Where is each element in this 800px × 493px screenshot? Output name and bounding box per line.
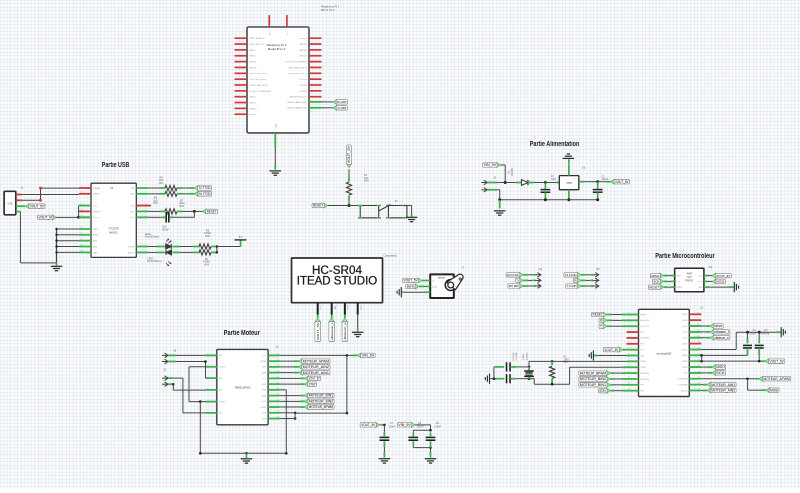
svg-text:PWMB: PWMB: [260, 407, 267, 409]
svg-text:14: 14: [277, 411, 279, 413]
svg-text:15: 15: [277, 405, 279, 407]
svg-text:ID_SD I2C ID EEPROM: ID_SD I2C ID EEPROM: [249, 91, 271, 93]
svg-text:23: 23: [698, 342, 700, 344]
svg-text:VOUT_5V: VOUT_5V: [615, 180, 629, 184]
svg-text:-: -: [433, 291, 434, 294]
svg-text:ADC4: ADC4: [682, 319, 687, 322]
svg-text:PROG: PROG: [685, 278, 693, 282]
svg-text:18: 18: [277, 388, 279, 390]
svg-text:Red (633nm): Red (633nm): [148, 260, 162, 263]
svg-text:TB6612FNG: TB6612FNG: [234, 385, 251, 389]
svg-text:17: 17: [698, 377, 700, 379]
svg-text:pcint2: pcint2: [682, 331, 687, 334]
svg-text:100nF: 100nF: [750, 332, 757, 335]
svg-text:VOUT_5V: VOUT_5V: [604, 348, 619, 352]
svg-text:ADC3: ADC3: [682, 342, 687, 345]
svg-text:OC1B/PWM: OC1B/PWM: [677, 379, 688, 381]
svg-text:AIN1: AIN1: [262, 371, 266, 374]
svg-text:MOTEUR_AIN2: MOTEUR_AIN2: [303, 365, 329, 369]
svg-text:C5 22pF: C5 22pF: [516, 351, 518, 360]
svg-text:SPI: SPI: [687, 275, 692, 279]
svg-text:AVR: AVR: [687, 271, 692, 275]
svg-text:AO1: AO1: [219, 354, 223, 357]
svg-text:TXLED: TXLED: [128, 246, 135, 248]
svg-text:Model B v1.2: Model B v1.2: [268, 47, 286, 51]
svg-text:16 MHz: 16 MHz: [526, 352, 528, 360]
svg-text:MISO: MISO: [676, 275, 681, 277]
svg-text:MOTEUR_AIN1: MOTEUR_AIN1: [303, 371, 329, 375]
svg-text:GND: GND: [275, 123, 277, 128]
svg-text:ultrason_t: ultrason_t: [714, 330, 729, 334]
svg-text:VCC: VCC: [262, 378, 267, 380]
svg-text:20: 20: [81, 227, 83, 229]
svg-text:GPIO5: GPIO5: [249, 97, 256, 99]
svg-text:28: 28: [698, 312, 700, 314]
svg-text:GND: GND: [93, 246, 98, 248]
svg-text:Partie Microcontroleur: Partie Microcontroleur: [655, 253, 715, 260]
svg-text:GPIO24: GPIO24: [300, 85, 308, 87]
svg-text:CTS: CTS: [131, 206, 136, 208]
svg-text:STBY: STBY: [599, 389, 606, 393]
svg-text:MISO: MISO: [716, 365, 725, 369]
svg-text:1: 1: [145, 186, 146, 188]
svg-text:GPIO8 SPI0_CE0_N: GPIO8 SPI0_CE0_N: [288, 73, 307, 75]
svg-text:Partie USB: Partie USB: [102, 162, 130, 169]
svg-text:BASIC: BASIC: [109, 230, 117, 234]
svg-text:100nF: 100nF: [417, 425, 424, 428]
svg-text:GPIO7 SPI0_CE1_N: GPIO7 SPI0_CE1_N: [288, 67, 307, 69]
svg-text:MOTEUR_AIN1: MOTEUR_AIN1: [711, 383, 735, 387]
svg-text:TXD: TXD: [131, 188, 136, 190]
svg-text:RXLED: RXLED: [128, 252, 135, 254]
svg-text:VM1: VM1: [262, 355, 266, 357]
svg-text:15: 15: [698, 388, 700, 390]
svg-text:MOTEUR_BIN2: MOTEUR_BIN2: [580, 377, 606, 381]
svg-text:MOSI: MOSI: [698, 281, 703, 283]
svg-text:VOUT_5V: VOUT_5V: [30, 204, 45, 208]
svg-text:11: 11: [628, 371, 630, 373]
svg-text:AREF: AREF: [682, 360, 688, 363]
svg-text:RESET: RESET: [676, 287, 683, 289]
svg-text:RX FT232: RX FT232: [507, 273, 519, 277]
svg-text:SCK: SCK: [716, 371, 725, 375]
svg-text:MOTEUR_BIN2: MOTEUR_BIN2: [309, 399, 333, 403]
svg-text:SCK: SCK: [653, 280, 660, 284]
svg-text:5: 5: [208, 400, 209, 402]
svg-text:VCC: VCC: [93, 206, 98, 208]
svg-text:OC1A/PWM: OC1A/PWM: [677, 383, 688, 386]
svg-text:GPIO13: GPIO13: [249, 108, 257, 110]
svg-text:AO2: AO2: [219, 377, 223, 380]
svg-text:6: 6: [145, 244, 146, 246]
svg-text:GPIO20: GPIO20: [300, 44, 308, 46]
svg-text:23: 23: [277, 359, 279, 361]
svg-text:GPIO27: GPIO27: [249, 62, 257, 64]
svg-text:RXD: RXD: [130, 194, 135, 196]
svg-text:GPIO15 UART0_RXD: GPIO15 UART0_RXD: [287, 101, 307, 104]
svg-text:ADC5: ADC5: [682, 313, 687, 316]
svg-text:2: 2: [145, 192, 146, 194]
svg-text:20: 20: [277, 376, 279, 378]
svg-text:13: 13: [628, 383, 630, 385]
svg-text:VIN_9V: VIN_9V: [398, 423, 411, 427]
svg-text:servo: servo: [407, 285, 415, 289]
svg-text:XTAL2: XTAL2: [640, 366, 646, 369]
svg-text:VIN_9V: VIN_9V: [484, 163, 497, 167]
svg-text:GPIO19: GPIO19: [249, 114, 257, 116]
svg-text:VCC: VCC: [319, 305, 321, 310]
svg-text:27: 27: [698, 318, 700, 320]
svg-text:VOUT_5V: VOUT_5V: [716, 274, 731, 278]
svg-text:GPIO16: GPIO16: [300, 50, 308, 52]
svg-text:PB0: PB0: [640, 390, 644, 392]
svg-text:VM2: VM2: [262, 413, 266, 415]
svg-text:PGND1: PGND1: [219, 367, 226, 369]
svg-text:7805: 7805: [566, 181, 572, 185]
svg-text:RX: RX: [574, 279, 577, 283]
svg-text:GPIO18 PCM_CLK: GPIO18 PCM_CLK: [290, 97, 308, 99]
svg-text:18: 18: [81, 209, 83, 211]
svg-text:2: 2: [629, 318, 630, 320]
svg-text:Partie Moteur: Partie Moteur: [224, 330, 260, 337]
svg-text:GPIO21: GPIO21: [300, 38, 308, 40]
svg-text:6: 6: [629, 342, 630, 344]
svg-text:STBY: STBY: [261, 384, 267, 386]
svg-text:SS/OC2: SS/OC2: [681, 390, 688, 392]
svg-text:VM3: VM3: [262, 418, 266, 420]
svg-text:100nF: 100nF: [602, 178, 609, 181]
svg-text:pcint17/TX: pcint17/TX: [640, 325, 650, 328]
svg-text:MOTEUR_BIN1: MOTEUR_BIN1: [309, 394, 333, 398]
svg-text:24: 24: [81, 250, 83, 252]
svg-text:22: 22: [698, 347, 700, 349]
svg-text:USBDP: USBDP: [93, 194, 101, 196]
svg-text:MOTEUR_BIN1: MOTEUR_BIN1: [580, 383, 606, 387]
svg-text:4: 4: [629, 330, 630, 332]
svg-text:21: 21: [81, 233, 83, 235]
svg-text:2: 2: [208, 365, 209, 367]
svg-text:4: 4: [208, 388, 209, 390]
svg-text:PD7: PD7: [640, 385, 644, 387]
svg-text:PD4: PD4: [640, 344, 644, 346]
svg-text:5: 5: [145, 215, 146, 217]
svg-text:PGND2: PGND2: [219, 401, 226, 403]
svg-text:GPIO2 SDA1 I2C: GPIO2 SDA1 I2C: [249, 37, 265, 40]
svg-text:GND: GND: [93, 252, 98, 254]
svg-text:atmega328: atmega328: [657, 352, 672, 356]
svg-text:GPIO23: GPIO23: [300, 91, 308, 93]
svg-text:GPIO11 SPI0_SCLK: GPIO11 SPI0_SCLK: [249, 85, 268, 87]
svg-text:VOUT_5V: VOUT_5V: [361, 423, 376, 427]
svg-text:MOTEUR_AIN2: MOTEUR_AIN2: [711, 389, 735, 393]
svg-text:PD3/PWM: PD3/PWM: [640, 338, 649, 340]
svg-text:RESET: RESET: [313, 204, 323, 208]
svg-text:MOSI: MOSI: [716, 280, 724, 284]
svg-text:8: 8: [629, 353, 630, 355]
svg-text:10μF: 10μF: [551, 178, 557, 181]
svg-text:XTAL1: XTAL1: [522, 353, 525, 360]
svg-text:RPI-3 V1.2: RPI-3 V1.2: [321, 8, 335, 12]
svg-text:J11: J11: [538, 268, 542, 271]
svg-text:servo: servo: [714, 324, 722, 328]
svg-text:VOUT_5V: VOUT_5V: [316, 323, 320, 341]
svg-text:GND: GND: [698, 287, 703, 289]
svg-text:GPIO6: GPIO6: [249, 102, 256, 104]
svg-text:MOSI: MOSI: [770, 388, 778, 392]
svg-text:21: 21: [277, 371, 279, 373]
svg-text:PD6/PWM: PD6/PWM: [640, 379, 649, 381]
svg-text:24: 24: [277, 353, 279, 355]
svg-text:Rx RPI: Rx RPI: [337, 100, 346, 104]
svg-text:U4: U4: [110, 186, 114, 190]
svg-text:J10: J10: [596, 268, 601, 271]
svg-text:AGND: AGND: [682, 354, 688, 357]
svg-text:VCC: VCC: [640, 349, 645, 351]
svg-text:BO1: BO1: [219, 413, 223, 415]
svg-text:ultrason_e: ultrason_e: [714, 336, 729, 340]
svg-text:TX FT232: TX FT232: [199, 186, 211, 190]
svg-text:ID_SC I2C ID EEPROM: ID_SC I2C ID EEPROM: [285, 62, 307, 64]
svg-text:TX: TX: [516, 279, 519, 283]
svg-text:pcint3: pcint3: [682, 337, 687, 340]
svg-text:TX RPI: TX RPI: [567, 284, 577, 288]
svg-text:21: 21: [698, 353, 700, 355]
svg-text:23: 23: [81, 244, 83, 246]
svg-text:22: 22: [277, 365, 279, 367]
svg-text:14: 14: [628, 389, 630, 391]
svg-text:5: 5: [629, 336, 630, 338]
svg-text:GPIO3 SCL1 I2C: GPIO3 SCL1 I2C: [249, 44, 265, 46]
svg-text:pcint16/RX: pcint16/RX: [640, 319, 650, 322]
svg-text:GPIO9 SPI0_MISO: GPIO9 SPI0_MISO: [249, 79, 267, 81]
svg-text:6: 6: [208, 411, 209, 413]
svg-text:15: 15: [81, 186, 83, 188]
svg-text:10: 10: [628, 365, 630, 367]
svg-text:MOTEUR_BPWM: MOTEUR_BPWM: [309, 405, 333, 409]
svg-text:RX FT232: RX FT232: [199, 192, 211, 196]
svg-text:PWMA: PWMA: [260, 360, 267, 363]
svg-text:16: 16: [698, 383, 700, 385]
svg-text:GND: GND: [262, 390, 267, 392]
svg-text:GPIO12: GPIO12: [300, 56, 308, 58]
svg-text:DTR: DTR: [130, 217, 135, 219]
svg-text:Red (633nm): Red (633nm): [145, 236, 159, 239]
svg-text:VIN_9V: VIN_9V: [362, 354, 375, 358]
svg-text:MOTEUR_APWM: MOTEUR_APWM: [303, 359, 329, 363]
svg-text:BIN2: BIN2: [262, 401, 266, 403]
svg-text:17: 17: [277, 393, 279, 395]
svg-text:USB: USB: [8, 202, 13, 205]
svg-text:VOUT_M: VOUT_M: [39, 216, 53, 220]
svg-text:19: 19: [277, 382, 279, 384]
svg-text:servo: servo: [438, 276, 446, 280]
svg-text:100nF: 100nF: [388, 425, 395, 428]
svg-text:RESET: RESET: [207, 210, 217, 214]
svg-text:RESET: RESET: [649, 285, 659, 289]
svg-text:20: 20: [698, 359, 700, 361]
svg-text:9: 9: [629, 359, 630, 361]
svg-text:7: 7: [629, 348, 630, 350]
svg-text:STBY: STBY: [309, 382, 316, 386]
svg-text:C4 22pF: C4 22pF: [513, 351, 515, 360]
svg-text:4: 4: [145, 209, 146, 211]
svg-text:Echo: Echo: [347, 305, 349, 311]
svg-text:Partie Alimentation: Partie Alimentation: [530, 141, 580, 148]
svg-text:GND: GND: [93, 241, 98, 243]
svg-text:PD2: PD2: [640, 332, 644, 334]
svg-text:GND: GND: [640, 355, 645, 357]
svg-text:VCC: VCC: [698, 275, 703, 277]
svg-text:16: 16: [277, 399, 279, 401]
svg-text:TEST: TEST: [93, 229, 99, 231]
svg-text:13: 13: [277, 416, 279, 418]
svg-text:RX: RX: [600, 319, 603, 323]
svg-text:AGND: AGND: [93, 234, 99, 237]
svg-text:3: 3: [629, 324, 630, 326]
svg-text:ultrason_e: ultrason_e: [343, 322, 347, 340]
svg-text:VOUT_5V: VOUT_5V: [347, 145, 351, 164]
svg-text:Tx RPI: Tx RPI: [337, 106, 346, 110]
svg-text:PD5/PWM: PD5/PWM: [640, 373, 649, 375]
svg-text:100nF: 100nF: [434, 425, 441, 428]
svg-text:AIN2: AIN2: [262, 366, 266, 369]
svg-text:MOTEUR_BPWM: MOTEUR_BPWM: [580, 371, 606, 375]
svg-text:BIN1: BIN1: [262, 395, 266, 397]
svg-text:GPIO10 SPI0_MOSI: GPIO10 SPI0_MOSI: [249, 73, 268, 75]
svg-text:VCCIO: VCCIO: [93, 217, 100, 219]
svg-text:pcint1: pcint1: [682, 325, 687, 328]
svg-text:USBDM: USBDM: [93, 188, 101, 190]
svg-text:ITEAD STUDIO: ITEAD STUDIO: [297, 276, 378, 288]
svg-text:VOUT_5V: VOUT_5V: [309, 377, 320, 381]
svg-text:GPIO17: GPIO17: [249, 56, 257, 58]
svg-text:RESET: RESET: [640, 314, 647, 316]
svg-text:BO2: BO2: [219, 390, 223, 392]
svg-text:TX: TX: [600, 324, 603, 328]
svg-text:MOTEUR_APWM: MOTEUR_APWM: [763, 377, 789, 381]
svg-text:3V3OUT: 3V3OUT: [93, 211, 102, 213]
svg-text:16: 16: [81, 192, 83, 194]
svg-text:1N4001: 1N4001: [511, 167, 514, 176]
svg-text:GPIO22: GPIO22: [249, 67, 257, 69]
svg-text:TX FT232: TX FT232: [565, 273, 577, 277]
svg-text:5V: 5V: [239, 235, 242, 239]
svg-text:J12: J12: [708, 266, 713, 269]
svg-text:AVCC: AVCC: [682, 348, 688, 351]
svg-text:Composant1: Composant1: [384, 254, 398, 257]
svg-text:12: 12: [628, 377, 630, 379]
svg-text:1: 1: [629, 312, 630, 314]
svg-text:GND: GND: [359, 305, 361, 310]
svg-text:22: 22: [81, 239, 83, 241]
svg-text:RTS: RTS: [131, 211, 136, 213]
svg-text:7: 7: [145, 250, 146, 252]
svg-text:MISO: MISO: [651, 274, 660, 278]
svg-text:100nF: 100nF: [162, 228, 169, 231]
svg-text:MISO: MISO: [683, 367, 688, 369]
svg-text:RESET: RESET: [593, 313, 603, 317]
svg-text:1N4148: 1N4148: [761, 332, 770, 335]
svg-text:RX RPI: RX RPI: [509, 284, 519, 288]
svg-text:XTAL1: XTAL1: [640, 360, 646, 363]
svg-text:VOUT_5V: VOUT_5V: [404, 279, 419, 283]
svg-text:GPIO25: GPIO25: [300, 79, 308, 81]
svg-text:VOUT_5V: VOUT_5V: [770, 359, 785, 363]
svg-text:GPIO14 UART0_TXD: GPIO14 UART0_TXD: [287, 107, 307, 110]
svg-text:ultrason_t: ultrason_t: [330, 322, 334, 340]
svg-text:GPIO4: GPIO4: [249, 50, 256, 52]
svg-text:1: 1: [208, 353, 209, 355]
svg-text:3: 3: [208, 376, 209, 378]
